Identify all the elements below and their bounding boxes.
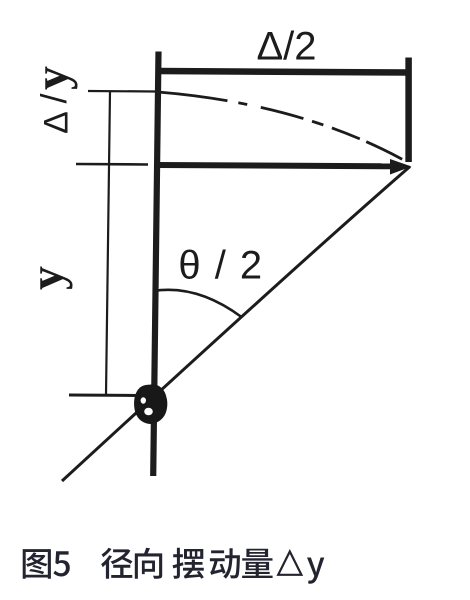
pivot blob [134, 384, 167, 424]
caption triangle △ [278, 552, 301, 575]
caption 图 [23, 549, 51, 579]
right end bar [405, 58, 412, 163]
tick top (Δ/y upper) [88, 90, 156, 93]
svg-text:y: y [26, 66, 79, 90]
svg-text:Δ: Δ [38, 111, 76, 134]
svg-text:y: y [21, 266, 74, 290]
radial line with arrow [157, 165, 394, 166]
dimension line top bar Δ/2 [158, 71, 411, 73]
tick middle (Δ/y lower) [76, 163, 148, 166]
angle arc θ/2 [153, 290, 242, 317]
caption 动 [210, 548, 240, 579]
svg-text:θ / 2: θ / 2 [178, 244, 263, 288]
svg-text:/: / [33, 93, 74, 103]
caption y [307, 558, 324, 584]
dimension witness line (left, thin vertical) [106, 91, 110, 395]
svg-text:Δ/2: Δ/2 [256, 25, 316, 69]
tick bottom (y lower) [69, 394, 137, 398]
dashed swing curve [158, 92, 409, 163]
shaft axis: thick vertical line [153, 52, 158, 477]
caption 向 [135, 548, 162, 579]
caption 5 [53, 551, 69, 576]
tilted shaft line [62, 167, 410, 482]
caption 摆 [173, 548, 204, 579]
arrowhead [390, 159, 412, 175]
caption 量 [242, 549, 273, 578]
caption 径 [101, 548, 132, 579]
